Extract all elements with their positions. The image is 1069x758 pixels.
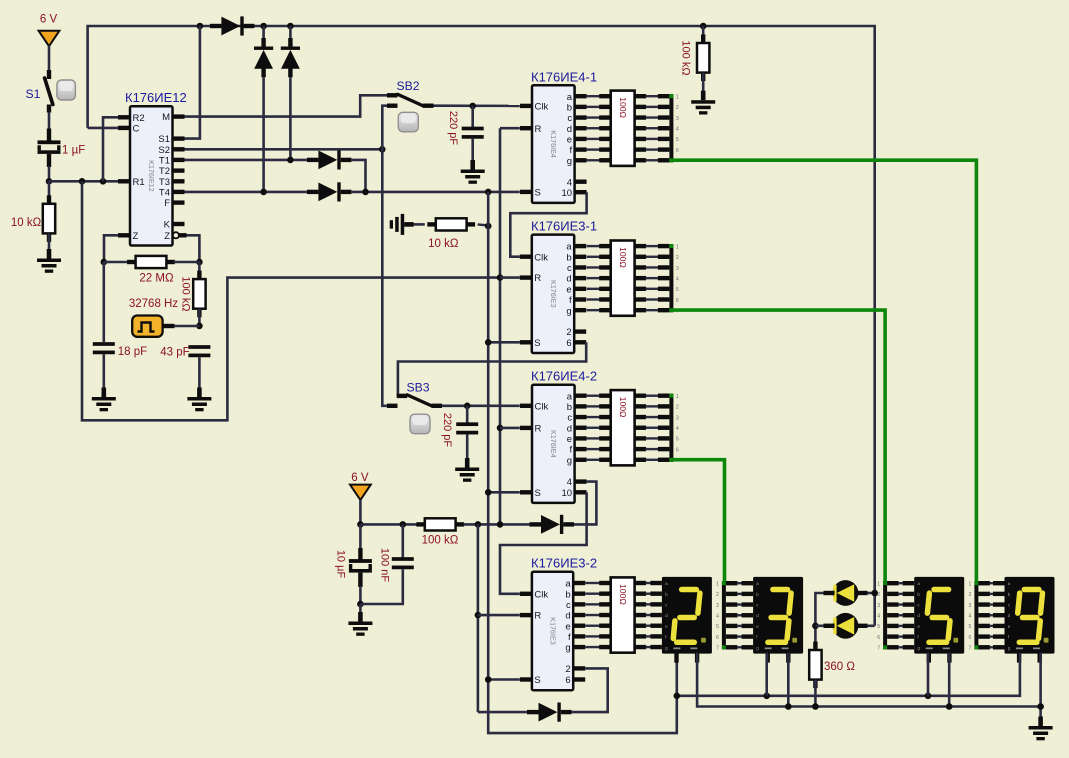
wire: set line to U2 S pin <box>351 191 519 194</box>
wire: reset loop from R1 row to counters R rail <box>82 181 500 420</box>
diode D6 (reset to U4 pin4) <box>530 522 542 526</box>
svg-text:220 pF: 220 pF <box>441 413 453 448</box>
bus bar (minute-tens group) <box>669 244 673 312</box>
svg-text:T3: T3 <box>159 177 170 188</box>
resistor R2 22 MOhm <box>104 261 129 264</box>
svg-text:b: b <box>567 102 572 113</box>
resistor network RN3 100 Ohm <box>611 390 635 465</box>
wire: V1 to S1 <box>48 45 51 71</box>
resistor R4 100 kOhm (top pull) <box>700 23 707 30</box>
junction: R rail bottom <box>497 521 504 528</box>
wire: bus to display 3 <box>726 592 738 596</box>
svg-text:100 kΩ: 100 kΩ <box>422 535 459 547</box>
svg-text:a: a <box>565 579 571 590</box>
wire: LED right rail <box>868 592 875 595</box>
wire: bus to display 3 <box>726 581 738 585</box>
display DS3 digit 5 (minute tens) <box>914 577 964 654</box>
junction: DS3 pin1 <box>925 693 932 700</box>
svg-text:g: g <box>566 306 571 317</box>
wire: U1 R2 to R1 row <box>103 117 119 181</box>
svg-text:T4: T4 <box>159 188 170 199</box>
wire: RN2 row <box>587 309 601 311</box>
capacitor C6 10 uF (polarized) <box>359 524 362 550</box>
wire: DS4 pin2 drop to ground <box>1039 653 1042 718</box>
svg-text:5: 5 <box>676 437 679 443</box>
svg-text:S: S <box>535 188 541 199</box>
svg-text:10 kΩ: 10 kΩ <box>428 238 459 250</box>
svg-text:6 V: 6 V <box>351 472 369 484</box>
IC U5 K176IE3-2 <box>532 572 573 691</box>
svg-text:2: 2 <box>969 592 972 598</box>
svg-text:Z: Z <box>164 231 170 242</box>
svg-text:Clk: Clk <box>534 589 548 600</box>
svg-text:R2: R2 <box>133 113 145 124</box>
wire: bus to display 9 <box>978 581 990 585</box>
svg-text:1: 1 <box>676 394 679 400</box>
svg-text:b: b <box>756 592 759 597</box>
junction: colon supply <box>871 590 878 597</box>
svg-text:e: e <box>567 434 572 445</box>
node: R1 row junction <box>46 178 53 185</box>
wire: RN2 row <box>587 298 601 300</box>
wire: RN3 row <box>587 459 601 461</box>
svg-text:S: S <box>535 488 541 499</box>
bus bar to displays (hour-units group) <box>669 94 673 162</box>
button of S1 <box>57 80 76 100</box>
svg-text:e: e <box>567 135 572 146</box>
junction: R5 to S rail <box>485 223 492 230</box>
svg-text:d: d <box>756 613 759 618</box>
ground under R4 <box>701 91 706 101</box>
svg-text:100Ω: 100Ω <box>618 247 628 268</box>
svg-text:R: R <box>534 611 541 622</box>
button of SB2 <box>398 112 418 132</box>
junction: crystal output node <box>196 323 203 330</box>
svg-text:S: S <box>534 338 540 349</box>
resistor R7 360 Ohm <box>813 642 817 652</box>
diode D4 (T1 to set line) <box>307 158 319 162</box>
svg-text:c: c <box>567 413 572 424</box>
svg-text:F: F <box>164 198 170 209</box>
wire: display common row A (pin1 rail) <box>677 653 1020 696</box>
wire: U1 T1 row <box>185 159 307 162</box>
ground under R1 <box>47 249 52 259</box>
svg-text:43 pF: 43 pF <box>160 347 189 359</box>
svg-text:360 Ω: 360 Ω <box>824 661 855 673</box>
svg-text:3: 3 <box>716 603 719 609</box>
wire: bus to display 5 <box>887 592 899 596</box>
svg-text:6: 6 <box>676 148 679 154</box>
svg-text:2: 2 <box>565 664 570 675</box>
switch S1 <box>47 70 51 79</box>
svg-text:c: c <box>567 113 572 124</box>
wire: RN4 row <box>585 582 600 584</box>
svg-text:f: f <box>569 145 572 156</box>
svg-text:1: 1 <box>676 95 679 101</box>
wire: RN4 row <box>585 614 600 616</box>
svg-text:C: C <box>133 124 140 135</box>
resistor R1 10 kOhm (under S1) <box>48 181 51 196</box>
wire: U4 pin10 to U5 Clk <box>500 492 587 594</box>
wire: U1 C pin to top rail corner <box>88 127 119 130</box>
junction: DS3 pin2 <box>946 703 953 710</box>
wire: S1 to C1 <box>48 112 51 130</box>
ground (left-facing) for R5 <box>404 222 414 227</box>
svg-text:K176IE4: K176IE4 <box>549 430 558 458</box>
svg-text:4: 4 <box>969 614 972 620</box>
wire: U1 T4 row <box>185 191 307 194</box>
svg-text:100Ω: 100Ω <box>618 97 628 118</box>
power supply V1 6V (top left) <box>39 31 60 46</box>
wire: top 6V rail from C-pin corner to colon LEDs rail <box>88 26 875 626</box>
capacitor C2 18 pF <box>93 342 115 346</box>
junction: R rail U4 <box>497 425 504 432</box>
wire: bus to display 3 <box>726 602 738 606</box>
svg-text:6: 6 <box>716 635 719 641</box>
display DS2 digit 3 (hour units) <box>753 577 803 654</box>
svg-text:6: 6 <box>565 675 570 686</box>
wire: R1 row to IC1 pin R1 <box>49 180 119 183</box>
svg-text:К176ИЕ3-2: К176ИЕ3-2 <box>531 556 597 571</box>
wire: U2 pin10 to U3 Clk <box>510 192 586 257</box>
wire: RN2 row <box>587 277 601 279</box>
wire: DS2 pin1 drop <box>765 653 768 696</box>
svg-text:g: g <box>567 156 572 167</box>
svg-text:a: a <box>665 581 668 586</box>
resistor network RN1 100 Ohm <box>611 91 635 166</box>
svg-text:К176ИЕ4-2: К176ИЕ4-2 <box>531 369 597 384</box>
wire: U5 R branch rail <box>477 524 480 712</box>
wire: U3 pin6 to SB3 upper contact <box>398 342 586 396</box>
capacitor C5 220 pF <box>466 406 469 423</box>
wire: SB2 to U2 Clk <box>434 104 520 107</box>
svg-text:e: e <box>565 621 570 632</box>
wire: RN3 row <box>587 395 601 397</box>
svg-text:d: d <box>1008 613 1011 618</box>
wire: RN4 row <box>585 635 600 637</box>
junction: U5 S <box>485 676 492 683</box>
wire: LED left rail to 360 Ohm <box>815 593 823 643</box>
svg-text:g: g <box>917 645 920 650</box>
bus bar at display 5 <box>883 581 887 649</box>
junction: row B end <box>1037 703 1044 710</box>
wire: RN1 row <box>587 159 601 161</box>
svg-text:g: g <box>567 455 572 466</box>
junction: 220pF tap <box>469 103 476 110</box>
resistor R5 10 kOhm (set pulldown) <box>414 223 425 226</box>
wire: RN2 row <box>587 288 601 290</box>
wire: U1 Z(right) down to 22M right rail <box>187 235 200 262</box>
svg-text:6 V: 6 V <box>40 14 58 26</box>
bus bar (hour... minute-units group) <box>669 394 673 462</box>
svg-text:Z: Z <box>133 231 139 242</box>
svg-text:3: 3 <box>969 603 972 609</box>
svg-text:7: 7 <box>969 646 972 652</box>
wire: RN2 row <box>587 266 601 268</box>
svg-text:f: f <box>568 632 571 643</box>
ground under C4 <box>470 160 475 170</box>
junction: cap ground node <box>357 601 364 608</box>
svg-text:4: 4 <box>716 614 719 620</box>
IC U3 K176IE3-1 <box>532 235 574 353</box>
svg-text:b: b <box>665 592 668 597</box>
svg-text:1: 1 <box>877 582 880 588</box>
wire: U2 R to R rail <box>500 127 520 130</box>
svg-text:e: e <box>917 624 920 629</box>
svg-text:e: e <box>756 624 759 629</box>
wire: U4 R to R rail <box>500 427 520 430</box>
wire: DS3 pin1 drop <box>927 653 930 696</box>
diode D7 (reset to U5 pin2) <box>527 710 539 714</box>
wire: R1 to ground <box>48 233 51 250</box>
resistor network RN2 100 Ohm <box>611 241 635 316</box>
svg-text:R: R <box>535 124 542 135</box>
junction: DS2 pin2 <box>785 703 792 710</box>
wire: RN3 row <box>587 448 601 450</box>
wire: RN1 row <box>587 116 601 118</box>
svg-text:K176IE4: K176IE4 <box>549 130 558 158</box>
svg-text:10 µF: 10 µF <box>335 550 347 579</box>
wire: R rail (reset net) <box>499 128 502 524</box>
svg-text:5: 5 <box>969 624 972 630</box>
svg-text:22 MΩ: 22 MΩ <box>139 273 174 285</box>
svg-text:4: 4 <box>676 426 679 432</box>
svg-text:Clk: Clk <box>535 401 549 412</box>
wire: RN3 row <box>587 427 601 429</box>
junction: 22M right <box>196 259 203 266</box>
junction: R7 bottom <box>812 703 819 710</box>
svg-text:SB3: SB3 <box>407 381 430 395</box>
wire: RN3 row <box>587 437 601 439</box>
svg-text:S2: S2 <box>158 145 170 156</box>
junction: set line <box>362 189 369 196</box>
svg-text:7: 7 <box>716 646 719 652</box>
diode D5 (T4 to set line) <box>307 190 319 194</box>
wire: bus to display 3 <box>726 613 738 617</box>
junction: 22M left <box>101 259 108 266</box>
svg-text:S: S <box>534 675 540 686</box>
junction: V2 node <box>357 521 364 528</box>
ground under C2 <box>102 388 107 398</box>
ground under C5 <box>465 458 470 468</box>
wire: U4 S to S rail <box>488 491 520 494</box>
wire: bus to display 5 <box>887 634 899 638</box>
svg-text:d: d <box>567 124 572 135</box>
wire: U1 M to SB2 upper contact <box>185 95 388 116</box>
wire: SB3 to U4 Clk <box>442 404 520 407</box>
wire: display common row B (pin2 rail) to ground <box>697 653 1041 707</box>
wire: RN4 row <box>585 603 600 605</box>
resistor network RN4 100 Ohm <box>611 577 635 652</box>
svg-text:Clk: Clk <box>535 102 549 113</box>
svg-text:К176ИЕ3-1: К176ИЕ3-1 <box>531 219 597 234</box>
svg-text:g: g <box>756 645 759 650</box>
junction on R1 row (loop to lower reset net) <box>79 178 86 185</box>
bus bar at display 9 <box>974 581 978 649</box>
svg-text:g: g <box>1008 645 1011 650</box>
svg-text:6: 6 <box>676 447 679 453</box>
svg-text:3: 3 <box>676 266 679 272</box>
wire: bus to display 3 <box>726 645 738 649</box>
svg-text:g: g <box>565 643 570 654</box>
svg-text:d: d <box>567 423 572 434</box>
svg-text:32768 Hz: 32768 Hz <box>129 298 178 310</box>
wire: DS3 pin2 drop <box>948 653 951 707</box>
ground bottom right <box>1038 717 1043 727</box>
svg-text:K176IE3: K176IE3 <box>549 280 558 308</box>
wire: C7 to ground node <box>360 569 402 604</box>
svg-text:R: R <box>535 424 542 435</box>
svg-text:SB2: SB2 <box>397 79 420 93</box>
capacitor C7 100 nF <box>401 524 404 558</box>
svg-text:2: 2 <box>676 405 679 411</box>
svg-text:100Ω: 100Ω <box>618 584 628 605</box>
resistor R6 100 kOhm (reset pull-up) <box>416 522 426 526</box>
svg-text:6: 6 <box>969 635 972 641</box>
wire: U1 S1 pin to top rail <box>185 26 200 139</box>
wire: bus to display 9 <box>978 613 990 617</box>
svg-text:5: 5 <box>716 624 719 630</box>
capacitor C3 43 pF <box>188 345 210 349</box>
svg-text:c: c <box>567 263 572 274</box>
wire: bus to display 9 <box>978 602 990 606</box>
junction: S2 on SB rail <box>379 146 386 153</box>
svg-text:2: 2 <box>716 592 719 598</box>
svg-text:2: 2 <box>676 105 679 111</box>
wire: RN1 row <box>587 148 601 150</box>
colon LED VD2 <box>833 613 859 639</box>
wire: bus to display 5 <box>887 602 899 606</box>
wire: bus to display 9 <box>978 624 990 628</box>
svg-text:M: M <box>162 112 170 123</box>
button of SB3 <box>410 414 430 434</box>
svg-text:3: 3 <box>676 116 679 122</box>
svg-text:K176IE12: K176IE12 <box>147 160 156 192</box>
wire: RN3 row <box>587 416 601 418</box>
svg-text:T1: T1 <box>159 156 170 167</box>
junction: DS2 pin1 <box>763 693 770 700</box>
svg-text:b: b <box>1008 592 1011 597</box>
wire: S rail (set net down all counters) <box>488 192 677 733</box>
junction: R rail U3 <box>497 274 504 281</box>
svg-text:b: b <box>565 589 570 600</box>
svg-text:10 kΩ: 10 kΩ <box>11 217 42 229</box>
svg-text:a: a <box>567 92 573 103</box>
crystal clock source 32768 Hz <box>132 316 162 337</box>
wire: bus to display 3 <box>726 634 738 638</box>
svg-text:100 kΩ: 100 kΩ <box>680 40 692 75</box>
wire: RN4 row <box>585 625 600 627</box>
wire: reset rail to D7 <box>478 711 529 714</box>
svg-text:T2: T2 <box>159 166 170 177</box>
svg-text:b: b <box>917 592 920 597</box>
wire: DS2 pin2 drop <box>787 653 790 707</box>
svg-text:a: a <box>756 581 759 586</box>
wire: bus to display 9 <box>978 592 990 596</box>
wire: U3 R to R rail <box>500 276 520 279</box>
wire: D4 out down to set line <box>351 160 365 192</box>
svg-text:4: 4 <box>676 127 679 133</box>
wire: U1 Z(left) down to 22M row and 18pF rail <box>104 235 119 262</box>
svg-text:К176ИЕ12: К176ИЕ12 <box>125 90 187 105</box>
svg-text:f: f <box>569 295 572 306</box>
svg-text:e: e <box>665 624 668 629</box>
wire: RN4 row <box>585 592 600 594</box>
svg-text:100Ω: 100Ω <box>618 397 628 418</box>
wire: RN2 row <box>587 256 601 258</box>
svg-text:c: c <box>566 600 571 611</box>
svg-text:b: b <box>567 402 572 413</box>
wire: bus to display 9 <box>978 645 990 649</box>
colon LED VD1 <box>833 580 859 606</box>
green bus wire 1 (to display 9) <box>673 160 976 582</box>
wire: bus to display 5 <box>887 581 899 585</box>
junction: U5 R branch <box>475 521 482 528</box>
svg-text:4: 4 <box>877 614 880 620</box>
wire: RN1 row <box>587 127 601 129</box>
junction: set line / S rail <box>485 189 492 196</box>
wire: RN2 row <box>587 245 601 247</box>
wire: RN4 row <box>585 646 600 648</box>
svg-text:3: 3 <box>676 415 679 421</box>
svg-text:K: K <box>164 220 171 231</box>
display DS1 digit 2 (hour tens) <box>662 577 712 654</box>
svg-text:2: 2 <box>676 255 679 261</box>
svg-text:6: 6 <box>676 298 679 304</box>
wire: bus to display 5 <box>887 624 899 628</box>
svg-text:d: d <box>665 613 668 618</box>
capacitor C4 220 pF <box>471 106 474 128</box>
svg-text:a: a <box>1008 581 1011 586</box>
wire: RN1 row <box>587 138 601 140</box>
svg-text:b: b <box>566 252 571 263</box>
wire: bus to display 9 <box>978 634 990 638</box>
svg-text:5: 5 <box>877 624 880 630</box>
wire: RN1 row <box>587 106 601 108</box>
junction: LED2 left <box>812 623 819 630</box>
IC U4 K176IE4-2 <box>532 385 575 503</box>
display DS4 digit 9 (minute units) <box>1005 577 1055 654</box>
svg-text:a: a <box>917 581 920 586</box>
wire: RN1 row <box>587 95 601 97</box>
power supply V2 6V (bottom) <box>350 485 371 500</box>
wire: U5 S pin to S rail <box>488 678 520 681</box>
wire: bus to display 3 <box>726 624 738 628</box>
wire: bus to display 5 <box>887 645 899 649</box>
svg-text:7: 7 <box>877 646 880 652</box>
green bus wire 3 (to display 3) <box>673 460 724 583</box>
svg-text:g: g <box>665 645 668 650</box>
svg-text:К176ИЕ4-1: К176ИЕ4-1 <box>531 69 597 84</box>
junction: U3 S <box>485 339 492 346</box>
ground under C6 <box>358 612 363 622</box>
resistor R3 100 kOhm (crystal bias) <box>198 262 201 272</box>
svg-text:3: 3 <box>877 603 880 609</box>
wire: bus to display 5 <box>887 613 899 617</box>
junction: DS1 pin1 <box>674 693 681 700</box>
junction: T1/D3 <box>287 157 294 164</box>
svg-text:d: d <box>917 613 920 618</box>
green bus wire 2 (to display 5) <box>673 310 885 582</box>
wire: RN3 row <box>587 405 601 407</box>
svg-text:a: a <box>566 242 572 253</box>
capacitor C1 1uF (polarized) <box>38 140 61 144</box>
wire: U1 S2 pin to SB2/SB3 rail <box>185 148 383 151</box>
svg-text:10: 10 <box>562 188 573 199</box>
svg-text:10: 10 <box>562 488 573 499</box>
IC U1 K176IE12 <box>130 106 173 245</box>
svg-text:S1: S1 <box>26 87 41 101</box>
